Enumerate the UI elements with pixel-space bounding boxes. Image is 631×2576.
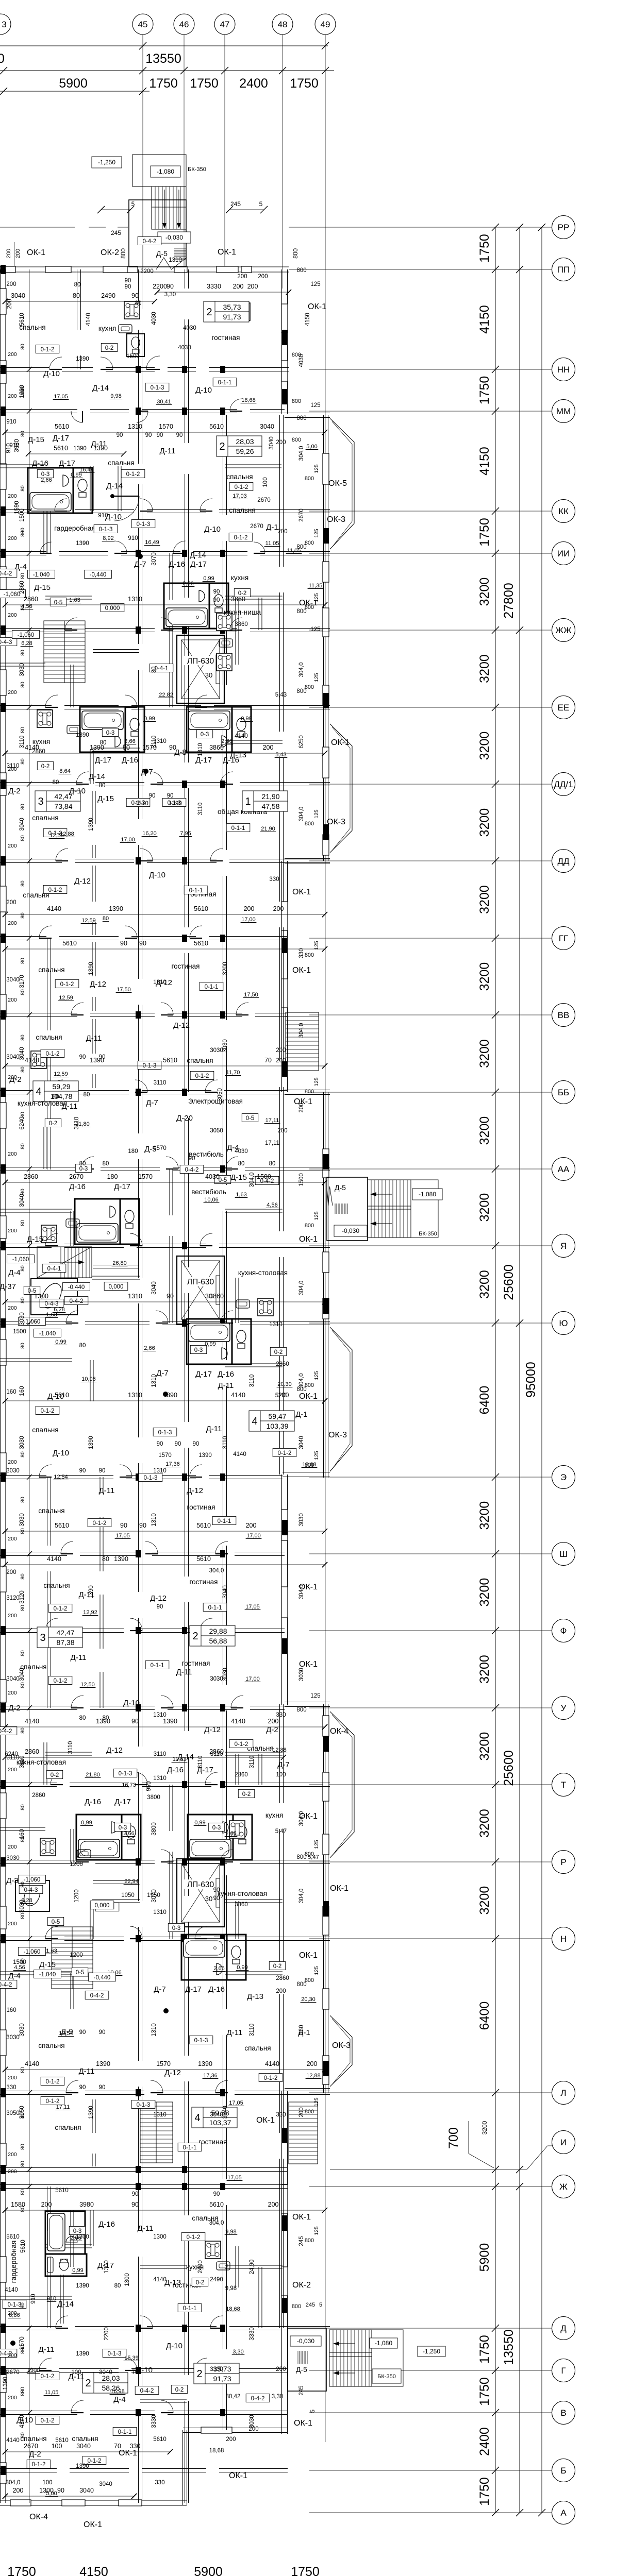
elevation 26,80 — [112, 1260, 128, 1266]
dim tick — [3, 2494, 8, 2499]
wall junction pier — [220, 2089, 225, 2096]
svg-text:Л: Л — [560, 2088, 566, 2098]
svg-text:2,66: 2,66 — [182, 581, 193, 587]
wall junction pier — [220, 1011, 225, 1019]
svg-text:0-1-2: 0-1-2 — [46, 1051, 60, 1057]
svg-text:80: 80 — [20, 1650, 26, 1656]
svg-text:90: 90 — [120, 940, 127, 947]
dim tick — [322, 1724, 327, 1730]
small room partition — [44, 1127, 47, 1169]
dim tick — [3, 2208, 8, 2213]
door — [45, 1926, 58, 1939]
wall junction pier left — [1, 1010, 6, 1020]
svg-text:59,47: 59,47 — [268, 1412, 286, 1420]
svg-text:1310: 1310 — [151, 2023, 157, 2037]
svg-text:200: 200 — [8, 2310, 17, 2316]
dim tick — [3, 1299, 8, 1304]
dim tick — [27, 782, 32, 787]
dim tick — [0, 67, 7, 74]
svg-text:ОК-5: ОК-5 — [328, 479, 347, 488]
door — [156, 1311, 168, 1323]
svg-text:800: 800 — [305, 2109, 314, 2115]
wall junction pier — [182, 2166, 187, 2173]
svg-text:Д-14: Д-14 — [89, 772, 105, 781]
floor label 0-4-2 — [0, 2349, 17, 2357]
facade pier — [281, 361, 288, 381]
interior wall row Г — [0, 2369, 46, 2372]
elevator shaft ЛП-630 middle — [177, 1256, 224, 1324]
svg-text:180: 180 — [128, 1148, 138, 1155]
stair platform bottom — [329, 2330, 403, 2386]
partition wall — [45, 1752, 92, 1755]
svg-text:Д-14: Д-14 — [57, 2300, 74, 2309]
dim tick — [492, 626, 499, 634]
interior wall vertical — [185, 1293, 189, 1422]
bay window inner line — [332, 1330, 350, 1469]
floor label 0,000 — [101, 603, 124, 612]
elevation 2,66 — [143, 1345, 156, 1351]
svg-text:3030: 3030 — [19, 1312, 25, 1326]
interior wall row Т — [224, 1783, 330, 1787]
svg-text:Д-11: Д-11 — [62, 1102, 78, 1111]
svg-text:3110: 3110 — [249, 1756, 255, 1769]
door — [161, 1003, 173, 1015]
svg-text:20,30: 20,30 — [277, 1381, 292, 1387]
interior wall row Я — [0, 1244, 52, 1248]
dim tick — [3, 751, 8, 756]
dim line 200 left — [14, 242, 15, 266]
svg-text:200: 200 — [276, 1058, 286, 1064]
svg-text:4140: 4140 — [47, 905, 61, 912]
svg-text:80: 80 — [20, 1727, 26, 1734]
wall junction pier left — [1, 1549, 6, 1558]
partition wall v — [92, 791, 95, 824]
wall junction pier left — [1, 2165, 6, 2174]
svg-text:Ф: Ф — [560, 1626, 567, 1636]
wall junction pier — [220, 781, 225, 788]
dim tick — [322, 67, 329, 74]
wall junction pier left — [1, 1626, 6, 1635]
kitchen sink — [217, 2262, 230, 2270]
dim tick — [281, 1755, 286, 1760]
wall junction pier left — [1, 1626, 6, 1635]
wall junction pier — [182, 857, 187, 865]
svg-text:2860: 2860 — [19, 581, 25, 594]
left wall pier — [0, 1103, 6, 1128]
svg-text:0,99: 0,99 — [72, 2267, 83, 2274]
bay window inner line — [332, 421, 352, 547]
svg-text:200: 200 — [273, 905, 284, 912]
dim tick — [3, 1398, 8, 1403]
wall junction pier — [220, 1319, 225, 1327]
wall junction pier — [136, 2325, 141, 2332]
door — [236, 1003, 248, 1015]
svg-text:2,66: 2,66 — [144, 1345, 155, 1351]
wall junction pier left — [1, 1857, 6, 1867]
door — [71, 1003, 84, 1015]
svg-text:125: 125 — [313, 809, 320, 819]
svg-text:47,58: 47,58 — [261, 802, 279, 810]
svg-text:18,68: 18,68 — [241, 397, 256, 403]
elevation 17,05 — [227, 2175, 243, 2181]
svg-text:200: 200 — [13, 2487, 24, 2494]
svg-text:4030: 4030 — [151, 312, 157, 325]
svg-text:9,98: 9,98 — [110, 393, 121, 399]
kitchen stove — [205, 2241, 221, 2259]
interior wall row ВВ — [90, 1013, 155, 1017]
left wall pier — [0, 1566, 6, 1592]
svg-text:3040: 3040 — [6, 1676, 20, 1682]
svg-text:125: 125 — [313, 1840, 320, 1849]
svg-text:90: 90 — [99, 1054, 106, 1060]
svg-text:90: 90 — [157, 432, 163, 438]
svg-text:245: 245 — [306, 2302, 315, 2308]
svg-text:80: 80 — [20, 1189, 26, 1195]
partition wall v — [90, 750, 93, 784]
svg-text:-1,060: -1,060 — [12, 1257, 29, 1263]
svg-text:56,88: 56,88 — [209, 1637, 227, 1645]
floor label 0-1-3 — [145, 383, 169, 391]
svg-text:2,66: 2,66 — [225, 1831, 236, 1837]
wall pier bottom — [119, 2500, 142, 2506]
floor label -1,060 — [19, 1875, 46, 1883]
elevation 1,63 — [235, 1192, 248, 1198]
dim tick — [3, 1180, 8, 1185]
wall junction pier — [136, 1858, 141, 1866]
svg-text:80: 80 — [20, 758, 26, 765]
wall junction pier — [220, 2409, 225, 2416]
kitchen sink — [119, 325, 132, 333]
svg-text:12,59: 12,59 — [49, 833, 64, 839]
dim tick — [322, 1562, 327, 1567]
interior wall row ДД — [0, 859, 62, 863]
partition wall v — [92, 997, 95, 1011]
dim tick — [492, 935, 499, 942]
entrance vestibule top outline — [129, 200, 186, 267]
svg-text:3030: 3030 — [210, 1676, 223, 1682]
floor label 0-1-2 — [41, 2096, 64, 2105]
svg-text:Д-10: Д-10 — [43, 369, 60, 378]
elevation 16,73 — [121, 1782, 137, 1788]
wall junction pier left — [1, 703, 6, 712]
svg-text:0-1-2: 0-1-2 — [54, 1606, 68, 1612]
svg-text:29,88: 29,88 — [209, 1627, 227, 1635]
svg-text:3030: 3030 — [19, 1436, 25, 1449]
svg-text:800: 800 — [292, 437, 301, 443]
svg-text:200: 200 — [8, 843, 17, 849]
wall junction pier — [220, 1858, 225, 1866]
svg-text:0,99: 0,99 — [81, 1820, 92, 1826]
elevation 8,64 — [59, 768, 72, 774]
svg-text:РР: РР — [558, 223, 570, 232]
interior wall row Т — [0, 1783, 57, 1787]
facade pier — [323, 835, 329, 855]
partition wall v — [71, 1973, 74, 2009]
svg-text:-0,440: -0,440 — [94, 1975, 111, 1981]
partition wall v — [71, 1973, 74, 2009]
interior wall vertical — [47, 2257, 51, 2328]
dim tick — [3, 946, 8, 952]
interior wall vertical — [185, 1757, 189, 1896]
dim tick — [3, 1724, 8, 1730]
entrance door zigzag — [156, 258, 187, 269]
wall junction pier — [136, 1473, 141, 1481]
svg-text:90: 90 — [79, 1468, 86, 1474]
wall junction pier — [136, 626, 141, 634]
interior wall row КК — [147, 510, 206, 513]
partition wall v — [236, 1901, 239, 1939]
svg-text:80: 80 — [20, 431, 26, 437]
wall junction pier left — [1, 1472, 6, 1482]
dim tick — [3, 912, 8, 917]
facade black pier — [323, 2061, 329, 2076]
svg-text:Д-16: Д-16 — [208, 1985, 225, 1994]
svg-text:спальня: спальня — [43, 1582, 70, 1589]
interior wall row У — [0, 1706, 77, 1710]
dim tick — [286, 290, 291, 295]
axis circle АА — [552, 1158, 575, 1181]
svg-text:4140: 4140 — [265, 2060, 279, 2067]
svg-text:3200: 3200 — [477, 1809, 492, 1838]
internal dim chain — [5, 1757, 284, 1758]
wall junction pier — [182, 408, 187, 415]
svg-text:Д-1: Д-1 — [295, 1410, 308, 1419]
elevation 11,05 — [264, 540, 280, 547]
svg-text:3200: 3200 — [477, 962, 492, 991]
svg-text:800: 800 — [305, 1462, 314, 1468]
dim tick — [322, 1063, 327, 1069]
axis circle ИИ — [552, 542, 575, 565]
facade pier — [323, 2056, 329, 2084]
axis circle ММ — [552, 400, 575, 423]
svg-text:90: 90 — [99, 1468, 106, 1474]
svg-text:1570: 1570 — [153, 1145, 167, 1151]
svg-text:80: 80 — [20, 650, 26, 656]
svg-text:2490: 2490 — [197, 2260, 204, 2274]
floor label -1,060 — [0, 589, 25, 598]
entrance stair Л — [289, 2102, 318, 2164]
svg-text:200: 200 — [8, 766, 17, 772]
svg-text:У: У — [561, 1703, 567, 1713]
svg-text:95000: 95000 — [524, 1362, 538, 1398]
dim line right chain C — [541, 227, 542, 2513]
door — [221, 1850, 233, 1862]
svg-text:80: 80 — [20, 682, 26, 688]
partition wall — [0, 1972, 72, 1975]
door — [130, 1233, 142, 1246]
svg-text:3030: 3030 — [19, 663, 25, 676]
door — [173, 541, 186, 553]
svg-text:ББ: ББ — [558, 1088, 569, 1097]
floor label 0-3 — [75, 1164, 91, 1172]
svg-text:80: 80 — [20, 1035, 26, 1041]
svg-text:200: 200 — [8, 997, 17, 1003]
apartment stamp 3 — [35, 791, 80, 811]
door — [190, 926, 202, 938]
svg-text:3040: 3040 — [19, 1047, 25, 1060]
svg-text:ПП: ПП — [557, 265, 570, 275]
facade black pier — [323, 1736, 329, 1752]
svg-text:Д-11: Д-11 — [79, 2067, 95, 2076]
wall junction pier left — [1, 1934, 6, 1943]
svg-text:90: 90 — [79, 2084, 86, 2091]
door — [55, 499, 67, 511]
shaft door slot — [216, 1276, 220, 1304]
floor label 0-4-1 — [42, 1264, 66, 1272]
svg-text:4030: 4030 — [235, 1148, 248, 1155]
axis circle Т — [552, 1773, 575, 1797]
wall junction pier — [182, 1319, 187, 1327]
svg-text:200: 200 — [244, 905, 255, 912]
svg-text:17,50: 17,50 — [117, 987, 131, 993]
svg-text:200: 200 — [6, 900, 16, 906]
axis circle ЖЖ — [552, 619, 575, 642]
facade black pier — [323, 528, 329, 544]
svg-text:5610: 5610 — [194, 940, 208, 947]
svg-text:1310: 1310 — [269, 1321, 283, 1328]
svg-text:1390: 1390 — [73, 446, 87, 452]
wall junction pier left — [1, 2088, 6, 2097]
svg-text:25600: 25600 — [502, 1264, 516, 1300]
dim tick — [3, 2449, 8, 2454]
interior wall row НН — [106, 368, 155, 371]
axis row line ДД/1 — [309, 784, 552, 785]
svg-text:1390: 1390 — [76, 2463, 89, 2469]
svg-text:3200: 3200 — [477, 1501, 492, 1530]
floor label 0-1-1 — [145, 1660, 169, 1669]
svg-text:0-1-2: 0-1-2 — [93, 1520, 107, 1527]
internal dim chain — [5, 1564, 325, 1565]
wall junction pier — [182, 366, 187, 373]
interior wall row ДД/1 — [95, 783, 144, 786]
partition wall — [225, 1209, 283, 1212]
wall junction pier — [220, 1781, 225, 1788]
svg-text:304,0: 304,0 — [209, 1568, 224, 1574]
svg-text:5610: 5610 — [54, 445, 68, 452]
dim tick — [3, 1724, 8, 1730]
svg-text:9,98: 9,98 — [225, 2285, 237, 2292]
stair landing line — [152, 207, 186, 208]
svg-text:3030: 3030 — [19, 1900, 25, 1913]
svg-text:200: 200 — [237, 274, 247, 280]
svg-text:90: 90 — [99, 2084, 106, 2091]
door — [135, 1080, 147, 1092]
corridor partition — [170, 620, 173, 707]
svg-text:3040: 3040 — [210, 2112, 223, 2118]
wall junction pier left — [1, 2182, 6, 2191]
internal dim chain — [5, 301, 155, 302]
elevation 12,59 — [81, 918, 97, 924]
interior wall vertical — [280, 1257, 284, 1475]
svg-text:800: 800 — [305, 1977, 314, 1984]
svg-text:0,000: 0,000 — [109, 1284, 124, 1290]
svg-text:1390: 1390 — [114, 1555, 128, 1563]
svg-text:200: 200 — [8, 2151, 17, 2158]
interior wall vertical — [47, 2187, 51, 2231]
kitchen stove — [124, 301, 140, 319]
interior wall row Б — [0, 2469, 57, 2472]
svg-text:Д-7: Д-7 — [146, 1098, 158, 1107]
elevation 0,99 — [70, 472, 83, 478]
svg-text:11,35: 11,35 — [309, 583, 323, 589]
svg-text:2860: 2860 — [24, 1173, 38, 1180]
svg-text:спальня: спальня — [32, 814, 58, 822]
elevation 8,92 — [102, 535, 115, 541]
left wall pier — [0, 1340, 6, 1365]
wall junction pier — [136, 1011, 141, 1019]
dim tick — [3, 430, 8, 435]
svg-text:спальня: спальня — [36, 1033, 62, 1041]
svg-text:1310: 1310 — [151, 1513, 157, 1527]
svg-text:3200: 3200 — [477, 808, 492, 837]
interior wall vertical — [280, 592, 284, 732]
partition wall v — [236, 598, 239, 665]
floor label 0,000 — [90, 1901, 114, 1909]
svg-text:3200: 3200 — [477, 1270, 492, 1299]
dim 700 leader — [469, 2154, 494, 2168]
svg-text:0-4-3: 0-4-3 — [0, 639, 12, 646]
svg-text:330: 330 — [298, 948, 305, 958]
interior wall vertical — [185, 623, 189, 762]
svg-text:Д-13: Д-13 — [230, 751, 246, 759]
svg-text:15,39: 15,39 — [124, 2355, 139, 2361]
svg-text:30: 30 — [205, 671, 212, 679]
dim line top left — [0, 91, 150, 92]
svg-text:3120: 3120 — [6, 1595, 20, 1601]
svg-text:0-3: 0-3 — [212, 1825, 221, 1831]
interior wall row КК — [75, 510, 134, 513]
axis circle ЕЕ — [552, 696, 575, 719]
svg-text:0-1-2: 0-1-2 — [278, 1450, 292, 1456]
internal stair Р-Н — [52, 1927, 93, 1989]
interior wall row Э — [126, 1476, 196, 1479]
grid line 46 — [184, 35, 185, 269]
svg-text:гостиная: гостиная — [190, 1578, 218, 1586]
svg-text:245: 245 — [111, 229, 121, 236]
door mat hatch bottom — [298, 2351, 307, 2364]
axis row line Г — [309, 2370, 552, 2371]
wall junction pier left — [1, 365, 6, 374]
facade pier — [323, 1149, 329, 1178]
stair flight БК-350 right — [368, 1180, 411, 1238]
dim tick — [3, 2208, 8, 2213]
elevation 9,98 — [110, 393, 123, 399]
elevation 1,63 — [45, 1312, 58, 1318]
facade black pier narrow section — [282, 2298, 288, 2313]
svg-text:спальня: спальня — [32, 1426, 58, 1434]
svg-text:1390: 1390 — [163, 1718, 177, 1725]
dim tick — [152, 299, 157, 304]
dim tick — [3, 2067, 8, 2072]
dim tick — [3, 2067, 8, 2072]
outer wall right ДД-ББ (axis 48) — [282, 861, 288, 1092]
svg-text:200: 200 — [226, 2436, 236, 2443]
interior wall row Ю — [162, 1321, 227, 1325]
svg-text:6250: 6250 — [298, 735, 305, 749]
interior wall vertical — [223, 2205, 227, 2349]
corridor partition — [170, 1852, 173, 1939]
wall junction pier — [220, 1935, 225, 1942]
floor label 0-1-3 — [131, 2100, 155, 2108]
svg-text:2400: 2400 — [239, 76, 268, 91]
dim tick — [492, 366, 499, 373]
stair mid rail — [329, 2356, 372, 2357]
svg-text:80: 80 — [73, 292, 80, 299]
interior wall row Ш — [152, 1552, 222, 1556]
wall junction pier left — [1, 1088, 6, 1097]
elevation 16,49 — [79, 467, 95, 473]
wall junction pier — [182, 1781, 187, 1788]
